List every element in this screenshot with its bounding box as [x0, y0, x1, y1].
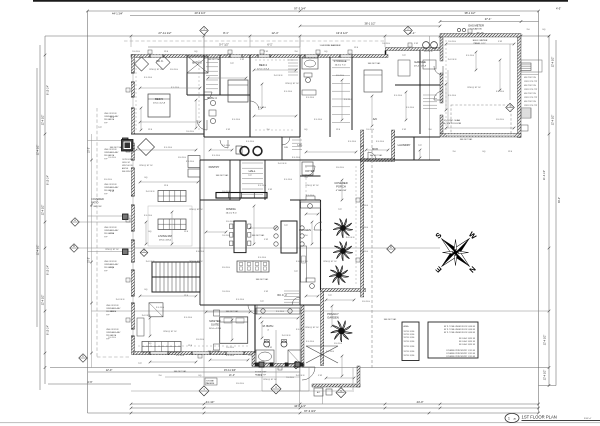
- grid bubble B left: [70, 244, 78, 252]
- svg-text:3'-0: 3'-0: [304, 235, 307, 237]
- svg-text:5 1/2: 5 1/2: [264, 291, 268, 293]
- exterior wall: top step to garage: [386, 48, 443, 51]
- svg-text:27'-11 1/2": 27'-11 1/2": [158, 31, 171, 35]
- svg-text:1ST FL 3,266: 1ST FL 3,266: [404, 351, 415, 353]
- staircase: [152, 262, 200, 292]
- interior dim line: [140, 181, 198, 183]
- window glazing west wall y73: [132, 73, 134, 82]
- svg-text:GAS METER: GAS METER: [468, 24, 484, 28]
- svg-text:4" BELOW: 4" BELOW: [336, 190, 347, 192]
- svg-text:9'-0 CLG: 9'-0 CLG: [406, 107, 414, 109]
- top dimension line 1: [88, 10, 539, 12]
- svg-text:BATH 4: BATH 4: [207, 96, 217, 100]
- top dim line y26: [300, 25, 440, 27]
- patio column 1: [123, 138, 129, 144]
- svg-text:COVERED: COVERED: [91, 197, 104, 201]
- svg-text:6'-1": 6'-1": [267, 43, 272, 47]
- svg-text:9'-0 CLG: 9'-0 CLG: [360, 227, 368, 229]
- top dim connector x131: [130, 36, 132, 47]
- interior dim line v: [261, 84, 263, 108]
- covered porch east wall: [361, 146, 364, 297]
- pantry south partition: [200, 199, 240, 201]
- svg-text:9'-0 CLG: 9'-0 CLG: [448, 41, 456, 43]
- svg-text:8'-0 CLG: 8'-0 CLG: [170, 69, 178, 71]
- top dim connector x250: [249, 36, 251, 47]
- svg-text:8'-0 CLG: 8'-0 CLG: [336, 75, 344, 77]
- interior dim line v: [475, 52, 477, 70]
- interior dim line v: [445, 84, 447, 110]
- svg-text:8'-10 1/4": 8'-10 1/4": [47, 265, 50, 275]
- bed 4: [228, 80, 248, 102]
- bottom dimension line y367: [50, 367, 549, 369]
- interior dim line: [254, 115, 296, 117]
- master couch grid: [142, 342, 181, 353]
- partition hall north: [204, 136, 300, 138]
- svg-text:4X4 POST ON: 4X4 POST ON: [524, 93, 536, 95]
- svg-text:1ST FL 3,266: 1ST FL 3,266: [404, 355, 415, 357]
- kitchen island: [281, 221, 297, 253]
- svg-text:9'-0 CLG: 9'-0 CLG: [226, 355, 234, 357]
- door arc master: [248, 305, 257, 314]
- interior dim line v: [341, 80, 343, 120]
- svg-text:9'-0 CLG: 9'-0 CLG: [276, 311, 284, 313]
- grid bubble 1 bottom: [199, 386, 209, 396]
- grid bubble 5 bottom: [336, 388, 346, 398]
- partition kitchen n2: [290, 199, 321, 201]
- svg-text:9'-0 CLG: 9'-0 CLG: [108, 337, 116, 339]
- svg-text:SEE DET 5/A5: SEE DET 5/A5: [384, 318, 396, 321]
- svg-text:9'-0 CLG: 9'-0 CLG: [246, 141, 254, 143]
- svg-text:4'-3": 4'-3": [556, 7, 561, 11]
- svg-text:44'-0 1/4": 44'-0 1/4": [294, 404, 306, 408]
- exterior west wall segment y336: [132, 336, 135, 355]
- sheet top edge line: [33, 0, 568, 2]
- exterior west wall segment y205: [132, 205, 135, 231]
- garage south wall: [440, 134, 521, 138]
- svg-text:8'-0 CLG: 8'-0 CLG: [226, 221, 234, 223]
- dining table: [234, 221, 246, 253]
- hall south partition: [200, 159, 300, 161]
- svg-text:4" CONC. SLAB: 4" CONC. SLAB: [444, 119, 460, 122]
- svg-text:9'-0 CLG: 9'-0 CLG: [132, 51, 140, 53]
- kitchen counters along west of kitchen wall: [301, 202, 321, 208]
- partition utility y85: [395, 84, 440, 86]
- svg-text:3'-0: 3'-0: [452, 151, 455, 153]
- svg-text:3'-0: 3'-0: [266, 129, 269, 131]
- bottom inner dim y377: [165, 376, 300, 378]
- exterior west wall segment y108: [132, 108, 135, 134]
- svg-text:LINE OF ROOF: LINE OF ROOF: [104, 149, 118, 151]
- top dim line y21 garage: [440, 21, 539, 23]
- entry column 2: [295, 362, 300, 367]
- living room sofa grid B: [158, 219, 186, 230]
- svg-text:OVERHANG ABV: OVERHANG ABV: [104, 229, 119, 232]
- partition bed4 west: [249, 55, 251, 137]
- svg-text:3'-0: 3'-0: [224, 55, 227, 57]
- svg-text:HALL: HALL: [249, 169, 256, 173]
- bottom dimension line y413: [88, 412, 539, 414]
- svg-text:LINE OF ROOF: LINE OF ROOF: [104, 227, 118, 229]
- svg-text:12X12 FTG TYP: 12X12 FTG TYP: [524, 89, 538, 91]
- interior dim line: [306, 213, 318, 215]
- svg-text:8'-0 CLG: 8'-0 CLG: [236, 383, 244, 385]
- svg-text:12'-6: 12'-6: [184, 231, 188, 233]
- dim stub x322 below garden: [322, 387, 324, 404]
- patio edge line bottom: [88, 251, 132, 253]
- svg-text:12'-6: 12'-6: [110, 311, 114, 313]
- svg-text:9'-0 CLG: 9'-0 CLG: [344, 99, 352, 101]
- top wall window openings: [150, 55, 163, 57]
- svg-text:9'-0 CLG: 9'-0 CLG: [232, 119, 240, 121]
- door arc garage upper: [434, 66, 443, 75]
- svg-text:2X10 @ 16" OC: 2X10 @ 16" OC: [305, 327, 319, 329]
- interior dim line: [136, 149, 196, 151]
- svg-text:12'-4 1/2": 12'-4 1/2": [42, 205, 45, 216]
- svg-text:44'-1 3/4": 44'-1 3/4": [112, 12, 123, 16]
- svg-text:SEE DET 5/A5: SEE DET 5/A5: [174, 370, 186, 373]
- svg-text:12'-6: 12'-6: [508, 151, 512, 153]
- svg-text:8'-0 CLG: 8'-0 CLG: [334, 343, 342, 345]
- interior dim line: [509, 44, 511, 100]
- top dimension line 2: [130, 15, 520, 17]
- svg-text:MUD: MUD: [372, 147, 378, 151]
- interior dim line: [254, 69, 296, 71]
- svg-text:3'-0 X 6'-8: 3'-0 X 6'-8: [146, 261, 155, 263]
- equipment pads: [314, 388, 323, 396]
- svg-text:LINE OF ROOF: LINE OF ROOF: [106, 329, 120, 331]
- left inner dim line x91: [91, 134, 93, 368]
- svg-text:1ST FL 3,266: 1ST FL 3,266: [404, 346, 415, 348]
- svg-text:5 1/2: 5 1/2: [318, 375, 322, 377]
- garage east wall: [518, 37, 522, 138]
- svg-text:2X10 @ 16" OC: 2X10 @ 16" OC: [189, 209, 203, 211]
- top dimension line 3 (main): [45, 35, 549, 37]
- svg-text:16'-0 x 13'-0: 16'-0 x 13'-0: [209, 328, 222, 330]
- svg-text:12'-4 1/2": 12'-4 1/2": [552, 57, 555, 68]
- bottom-left dimension line y384: [48, 383, 131, 385]
- svg-text:9'-0 CLG: 9'-0 CLG: [366, 129, 374, 131]
- garage door opening: [447, 134, 514, 136]
- svg-text:12'-6: 12'-6: [164, 51, 168, 53]
- svg-text:38'-1 1/2": 38'-1 1/2": [465, 11, 476, 15]
- entry walk east line: [308, 368, 310, 392]
- svg-text:9'-0 CLG: 9'-0 CLG: [496, 91, 504, 93]
- door arc hall: [204, 92, 212, 100]
- garage west wall mid: [440, 73, 443, 103]
- svg-text:9'-0 CLG: 9'-0 CLG: [176, 355, 184, 357]
- svg-text:SF TL TOTAL UNDER ROOF 5,636 S: SF TL TOTAL UNDER ROOF 5,636 SF: [444, 328, 476, 331]
- svg-text:OVERHANG ABV: OVERHANG ABV: [104, 151, 119, 154]
- svg-text:2X10 @ 16" OC: 2X10 @ 16" OC: [149, 69, 163, 71]
- interior dim line v: [261, 322, 263, 338]
- pantry shelves: [242, 162, 263, 164]
- svg-text:9'-0 CLG: 9'-0 CLG: [196, 251, 204, 253]
- window glazing west wall y97: [132, 97, 134, 108]
- svg-text:3/16"=1': 3/16"=1': [584, 418, 592, 420]
- svg-text:5 1/2: 5 1/2: [240, 59, 244, 61]
- svg-text:41'-10": 41'-10": [206, 400, 215, 404]
- exterior west wall segment y143: [132, 143, 135, 160]
- svg-text:12'-4 1/2": 12'-4 1/2": [42, 295, 45, 306]
- paver note box: [205, 378, 217, 385]
- svg-text:9'-0 CLG: 9'-0 CLG: [376, 141, 384, 143]
- svg-text:3'-0 X 6'-8: 3'-0 X 6'-8: [146, 191, 155, 193]
- small area table box: [402, 322, 419, 361]
- covered porch south wall: [321, 289, 366, 292]
- svg-text:2X10 @ 16" OC: 2X10 @ 16" OC: [263, 379, 277, 381]
- top dim connector x300: [299, 36, 301, 47]
- svg-text:9'-0 CLG: 9'-0 CLG: [382, 43, 390, 45]
- svg-text:SEE DET 5/A5: SEE DET 5/A5: [460, 138, 472, 141]
- exterior wall step master/bath: [252, 353, 255, 366]
- partition wic/bath5: [219, 55, 221, 95]
- garage west wall lower: [440, 115, 443, 134]
- sheet bottom gray line: [0, 422, 600, 424]
- svg-text:9'-0 CLG: 9'-0 CLG: [360, 205, 368, 207]
- ceiling diamond bed5 b: [156, 55, 170, 69]
- svg-text:3'-0 X 6'-8: 3'-0 X 6'-8: [282, 335, 291, 337]
- south wall mudroom: [361, 159, 395, 162]
- svg-text:STORAGE: STORAGE: [333, 59, 346, 63]
- grid bubble 3 right of garage: [506, 103, 514, 111]
- privacy garden south wall: [312, 384, 360, 387]
- partition storage west: [329, 57, 331, 137]
- ceiling diamond at entry west: [138, 139, 155, 156]
- door arc entry: [305, 166, 315, 176]
- bed 5: [148, 94, 170, 117]
- exterior west wall segment y303: [132, 303, 135, 329]
- svg-text:LINE OF ROOF: LINE OF ROOF: [104, 113, 118, 115]
- svg-text:9'-0 CLG: 9'-0 CLG: [284, 91, 292, 93]
- east wall at mud/laundry: [392, 130, 395, 160]
- svg-text:23'-5": 23'-5": [89, 257, 91, 263]
- svg-text:13'-0 x 12'-8: 13'-0 x 12'-8: [153, 102, 166, 104]
- grid stub x341: [340, 386, 342, 393]
- svg-text:3'-0 X 6'-8: 3'-0 X 6'-8: [142, 315, 151, 317]
- right dimension line x538: [538, 11, 540, 413]
- svg-text:97'-3 3/4": 97'-3 3/4": [304, 409, 316, 413]
- svg-text:9'-0 CLG: 9'-0 CLG: [144, 77, 152, 79]
- exterior west wall segment y54.5: [132, 55, 135, 74]
- door arc bath hall: [292, 297, 300, 305]
- east steps upper ladder: [521, 63, 531, 71]
- svg-text:9'-0 CLG: 9'-0 CLG: [212, 155, 220, 157]
- left dimension line x37: [36, 68, 38, 327]
- svg-text:4'-6": 4'-6": [87, 380, 92, 384]
- svg-text:27'-4": 27'-4": [485, 17, 492, 21]
- svg-text:KITCHEN: KITCHEN: [299, 228, 311, 232]
- patio column 3: [123, 249, 129, 255]
- svg-text:SEE DET 5/A5: SEE DET 5/A5: [226, 310, 238, 313]
- interior dim line: [447, 70, 449, 128]
- svg-text:12X12 FTG TYP: 12X12 FTG TYP: [524, 105, 538, 107]
- svg-text:W.I.C.: W.I.C.: [156, 59, 164, 63]
- armchair squares: [188, 156, 200, 168]
- entry door arc below bath south wall: [302, 367, 315, 380]
- grid line y222: [74, 221, 131, 223]
- svg-text:1ST FLOOR PLAN: 1ST FLOOR PLAN: [522, 414, 557, 419]
- wic2 hanger lines: [284, 290, 299, 292]
- svg-text:8'-0 CLG: 8'-0 CLG: [362, 301, 370, 303]
- exterior wall: house top: [131, 55, 388, 58]
- partition bath5 south: [187, 94, 250, 96]
- door arc bed5: [197, 120, 207, 130]
- partition bed4 east: [299, 55, 301, 137]
- east steps lower ladder: [521, 108, 531, 118]
- svg-text:COVERED PRINT ENTRY 1,745 SF: COVERED PRINT ENTRY 1,745 SF: [446, 350, 476, 352]
- patio edge line top: [88, 140, 132, 142]
- svg-text:5 1/2: 5 1/2: [264, 51, 268, 53]
- svg-text:SF FL A/C 3,891 SF: SF FL A/C 3,891 SF: [459, 337, 476, 340]
- svg-text:COVERED PRINT ENTRY 1,745 SF: COVERED PRINT ENTRY 1,745 SF: [446, 356, 476, 358]
- partition mud south: [395, 136, 440, 138]
- svg-text:4X4 POST ON: 4X4 POST ON: [524, 85, 536, 87]
- interior dim line: [208, 77, 246, 79]
- grid bubble 1 top: [200, 26, 208, 34]
- partition kitchen east: [320, 200, 322, 290]
- partition utility west x420: [419, 51, 421, 135]
- grid bubble A left: [71, 218, 79, 226]
- exterior wall: bath east: [301, 305, 304, 366]
- svg-text:1: 1: [508, 417, 510, 421]
- bath south wall pilaster blocks: [255, 363, 258, 366]
- kitchen counter east run: [301, 246, 307, 282]
- patio column 2: [123, 214, 129, 220]
- svg-text:8'-0 CLG: 8'-0 CLG: [178, 157, 186, 159]
- svg-text:8'-1": 8'-1": [223, 31, 229, 35]
- svg-text:15'-11 3/4": 15'-11 3/4": [224, 368, 236, 372]
- svg-text:9'-0 CLG: 9'-0 CLG: [258, 257, 266, 259]
- svg-text:PORCH: PORCH: [336, 184, 346, 188]
- palm tree 3 covered porch: [329, 266, 349, 285]
- svg-text:SF FL A/C 3,891 SF: SF FL A/C 3,891 SF: [459, 343, 476, 346]
- powder partition: [300, 175, 321, 177]
- svg-text:STONE: STONE: [206, 381, 214, 383]
- svg-text:12X12 FTG TYP: 12X12 FTG TYP: [524, 97, 538, 99]
- svg-text:LAUNDRY: LAUNDRY: [398, 143, 411, 147]
- dining chair: [230, 224, 233, 229]
- interior dim line v: [419, 150, 421, 158]
- svg-text:8'-0 CLG: 8'-0 CLG: [222, 267, 230, 269]
- fireplace table: [149, 303, 163, 317]
- grid bubble 6 interior: [292, 361, 300, 369]
- svg-text:48'-2": 48'-2": [558, 197, 561, 203]
- svg-text:1ST FL 3,266: 1ST FL 3,266: [404, 341, 415, 343]
- privacy garden west wall: [321, 290, 324, 366]
- powder room fixtures: [308, 204, 313, 209]
- svg-text:PRIVACY: PRIVACY: [327, 312, 339, 316]
- svg-text:4" BELOW: 4" BELOW: [91, 206, 102, 208]
- svg-text:3'-0: 3'-0: [526, 29, 529, 31]
- svg-text:97'-3 3/4": 97'-3 3/4": [294, 7, 306, 11]
- svg-text:12X12 FTG TYP: 12X12 FTG TYP: [524, 81, 538, 83]
- svg-text:5 1/2: 5 1/2: [226, 129, 230, 131]
- east dim connector: [521, 74, 539, 76]
- svg-text:COVERED PRINT ENTRY 1,745 SF: COVERED PRINT ENTRY 1,745 SF: [446, 353, 476, 355]
- svg-text:9'-0 CLG: 9'-0 CLG: [222, 235, 230, 237]
- svg-text:DN: DN: [284, 147, 288, 149]
- exterior wall: master suite south: [134, 352, 256, 355]
- palm tree 4 privacy garden: [331, 321, 353, 342]
- svg-text:BED 4: BED 4: [259, 63, 267, 67]
- svg-text:PANTRY: PANTRY: [209, 165, 220, 169]
- entry walk west line: [299, 368, 301, 405]
- partition storage east: [351, 57, 353, 130]
- svg-text:8'-10 1/4": 8'-10 1/4": [47, 325, 50, 335]
- exterior west wall segment y82: [132, 82, 135, 97]
- svg-text:8'-0 CLG: 8'-0 CLG: [104, 179, 112, 181]
- svg-text:OVERHANG ABV: OVERHANG ABV: [104, 186, 119, 189]
- right dimension line x558: [555, 40, 557, 386]
- svg-text:PATIO: PATIO: [91, 200, 98, 204]
- svg-text:8'-0 CLG: 8'-0 CLG: [196, 339, 204, 341]
- svg-text:9'-0 CLG: 9'-0 CLG: [360, 251, 368, 253]
- living room sofa grid A: [158, 191, 186, 202]
- svg-text:9'-0 CLG: 9'-0 CLG: [296, 329, 304, 331]
- interior dim line v: [341, 180, 343, 200]
- left dimension line x45: [44, 36, 46, 384]
- interior dim line v: [231, 320, 233, 340]
- svg-text:2X10 @ 16" OC: 2X10 @ 16" OC: [105, 249, 119, 251]
- partition mud east: [413, 137, 415, 160]
- living room rug: [148, 206, 192, 246]
- partition kitchen north: [300, 159, 360, 161]
- partition bed5/wic: [186, 55, 188, 95]
- partition pantry east: [264, 160, 266, 200]
- large area notes box: [428, 322, 478, 358]
- dining chair: [230, 241, 233, 246]
- interior dim line: [250, 227, 276, 229]
- top dim connector x385: [384, 36, 386, 47]
- interior dim line: [326, 377, 354, 379]
- interior dim line: [446, 43, 514, 45]
- svg-text:A/C: A/C: [373, 117, 378, 121]
- grid bubble C left bottom: [79, 354, 87, 362]
- master shower: [288, 350, 301, 364]
- svg-text:A/C: A/C: [317, 391, 321, 394]
- bath fixtures near foyer: [310, 284, 315, 289]
- grid bubble 7 interior living: [140, 249, 148, 257]
- wic hanger rod lines: [206, 57, 218, 59]
- interior dim line: [140, 121, 200, 123]
- entry step line s: [262, 390, 309, 392]
- svg-text:12'-6: 12'-6: [188, 345, 192, 347]
- kitchen counter dark band: [216, 193, 267, 199]
- top dim connector x440: [439, 36, 441, 47]
- master bath vanity: [256, 308, 300, 314]
- svg-text:3'-0 X 6'-8: 3'-0 X 6'-8: [424, 51, 433, 53]
- laundry washer dryer circles: [240, 147, 249, 156]
- exterior west wall segment y270: [132, 270, 135, 296]
- master bath sinks: [261, 309, 265, 313]
- left dimension line x87: [87, 11, 89, 413]
- bottom dimension line y372: [88, 371, 300, 373]
- interior dim line: [150, 361, 196, 363]
- svg-text:9'-0 CLG: 9'-0 CLG: [222, 291, 230, 293]
- svg-text:5 1/2: 5 1/2: [268, 347, 272, 349]
- svg-text:3'-0 X 6'-8: 3'-0 X 6'-8: [346, 237, 355, 239]
- svg-text:3'-0 X 6'-8: 3'-0 X 6'-8: [116, 299, 125, 301]
- svg-text:2X10 @ 16" OC: 2X10 @ 16" OC: [323, 261, 337, 263]
- grid stub x276: [275, 330, 277, 385]
- kitchen sink: [302, 256, 306, 263]
- partition hall west: [199, 160, 201, 305]
- dashed setback line: [371, 130, 373, 370]
- master bed: [220, 317, 248, 343]
- laundry closet partition: [281, 137, 283, 160]
- roof overhang dashed line west: [96, 108, 98, 357]
- svg-text:21'-3 1/2": 21'-3 1/2": [543, 170, 546, 180]
